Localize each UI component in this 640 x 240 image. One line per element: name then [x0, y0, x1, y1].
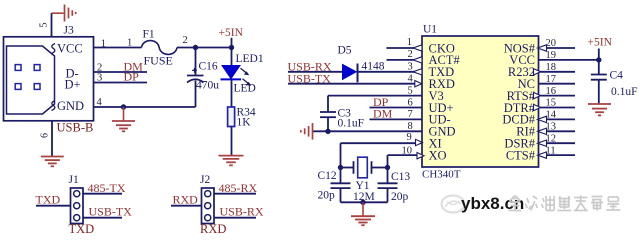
pin 9 in arrow	[416, 139, 423, 145]
svg-text:2: 2	[408, 49, 413, 60]
svg-text:TXD: TXD	[36, 192, 61, 206]
power net +5IN	[598, 49, 600, 60]
wire pin 17	[539, 83, 576, 85]
svg-text:USB-TX: USB-TX	[89, 205, 133, 219]
svg-text:LED1: LED1	[236, 53, 264, 65]
svg-text:C13: C13	[391, 171, 410, 183]
wire	[288, 83, 422, 85]
svg-text:3: 3	[408, 62, 413, 73]
svg-text:D5: D5	[338, 45, 352, 57]
wire (XO)	[388, 154, 423, 156]
chassis ground (J3 shield)	[52, 12, 64, 14]
wire	[370, 107, 423, 109]
svg-text:485-RX: 485-RX	[219, 181, 258, 195]
pin 15 out arrow	[534, 104, 541, 110]
svg-text:J1: J1	[69, 174, 79, 186]
svg-text:RXD: RXD	[200, 222, 226, 233]
wire	[370, 118, 423, 120]
diode D5	[343, 64, 357, 79]
wire	[359, 71, 423, 73]
watermark logo	[442, 196, 465, 213]
svg-text:12: 12	[546, 133, 557, 144]
svg-text:USB-B: USB-B	[57, 121, 94, 135]
svg-text:485-TX: 485-TX	[88, 181, 126, 195]
svg-text:7: 7	[408, 109, 413, 120]
svg-text:+5IN: +5IN	[588, 36, 613, 48]
wire	[171, 205, 202, 207]
capacitor C3	[320, 111, 336, 113]
svg-text:3: 3	[97, 73, 102, 84]
connector J2 body	[202, 188, 215, 224]
watermark chinese text	[509, 196, 522, 211]
svg-text:4148: 4148	[362, 61, 385, 73]
svg-text:F1: F1	[143, 29, 155, 41]
wire (XI)	[341, 142, 423, 144]
junction	[338, 165, 343, 170]
wire (J3 pin2 D-)	[94, 71, 148, 73]
wire	[83, 193, 122, 195]
wire (J3 pin1 VCC)	[94, 47, 142, 49]
pin 10 in arrow	[417, 153, 424, 159]
wire pin 11	[539, 154, 576, 156]
pin 11 in arrow	[538, 152, 547, 158]
svg-text:GND: GND	[57, 99, 84, 113]
connector J3 body (USB-B)	[4, 37, 94, 121]
svg-text:J2: J2	[200, 174, 210, 186]
ground	[588, 103, 611, 105]
fuse F1	[142, 41, 178, 55]
svg-text:5: 5	[39, 23, 50, 28]
svg-text:DP: DP	[124, 70, 140, 84]
wire (J3 pin 6 shield)	[51, 121, 53, 156]
wire pin 16	[539, 95, 576, 97]
wire pin 18	[539, 71, 576, 73]
svg-text:14: 14	[546, 110, 557, 121]
svg-text:18: 18	[546, 62, 557, 73]
svg-text:10: 10	[402, 145, 413, 156]
svg-text:VCC: VCC	[57, 42, 83, 56]
svg-text:0.1uF: 0.1uF	[611, 86, 638, 98]
svg-text:D+: D+	[65, 78, 81, 92]
capacitor C12	[331, 182, 351, 184]
svg-text:USB-RX: USB-RX	[220, 205, 264, 219]
svg-text:C12: C12	[318, 170, 337, 182]
wire (J3 shield pin 5)	[51, 13, 53, 37]
svg-text:J3: J3	[64, 25, 74, 37]
junction	[596, 57, 601, 62]
svg-text:5: 5	[408, 85, 413, 96]
wire pin 14	[539, 118, 576, 120]
wire pin 1	[387, 47, 423, 49]
svg-text:U1: U1	[423, 24, 437, 36]
pin 14 in arrow	[538, 116, 547, 122]
svg-text:1: 1	[101, 39, 106, 50]
wire	[231, 48, 233, 67]
wire pin 13	[539, 130, 576, 132]
svg-text:1: 1	[127, 38, 132, 49]
svg-text:17: 17	[546, 74, 557, 85]
svg-text:2: 2	[183, 35, 188, 46]
wire	[214, 193, 256, 195]
svg-text:+5IN: +5IN	[219, 27, 244, 39]
wire pin 2	[387, 59, 423, 61]
svg-text:6: 6	[408, 97, 413, 108]
wire	[83, 217, 122, 219]
svg-text:20p: 20p	[318, 190, 336, 202]
pin 4 in arrow	[415, 81, 422, 87]
pin 2 out arrow	[413, 57, 422, 63]
wire	[177, 47, 232, 49]
ground (rotated)	[312, 123, 314, 140]
pin 16 out arrow	[534, 92, 541, 98]
svg-text:4: 4	[97, 97, 103, 108]
crystal Y1	[341, 167, 354, 169]
junction	[229, 45, 234, 50]
wire pin 15	[539, 107, 576, 109]
wire pin 19	[539, 59, 599, 61]
pin 13 in arrow	[538, 128, 547, 134]
LED LED1	[222, 66, 240, 79]
pin 18 out arrow	[534, 69, 541, 75]
svg-text:6: 6	[40, 133, 51, 138]
wire	[214, 217, 256, 219]
wire	[36, 205, 71, 207]
svg-text:9: 9	[407, 132, 412, 143]
svg-text:20: 20	[546, 38, 557, 49]
ground (USB-B shield)	[41, 156, 64, 158]
junction	[385, 165, 390, 170]
svg-text:19: 19	[546, 50, 557, 61]
svg-text:CTS#: CTS#	[506, 148, 536, 162]
wire	[231, 127, 233, 156]
svg-text:TXD: TXD	[69, 222, 95, 233]
ground	[219, 155, 244, 157]
wire pin 12	[539, 142, 576, 144]
svg-text:RXD: RXD	[173, 192, 199, 206]
capacitor C16	[195, 48, 197, 76]
capacitor C13	[378, 182, 398, 184]
svg-text:15: 15	[546, 98, 557, 109]
svg-text:470u: 470u	[196, 80, 219, 92]
svg-text:1K: 1K	[237, 117, 252, 129]
wire	[288, 71, 343, 73]
pin 3 out arrow	[413, 69, 422, 75]
IC U1 CH340T body	[422, 36, 539, 167]
pin 12 in arrow	[538, 140, 547, 146]
pin 1 out arrow	[413, 45, 422, 51]
wire pin 20	[539, 47, 576, 49]
junction	[360, 200, 365, 205]
svg-text:16: 16	[546, 86, 557, 97]
wire (J3 pin3 D+)	[94, 82, 148, 84]
capacitor C4	[598, 60, 600, 75]
junction	[325, 129, 330, 134]
wire (J3 pin4 GND)	[94, 106, 196, 108]
svg-text:4: 4	[408, 74, 414, 85]
wire (GND pin8)	[313, 130, 422, 132]
ground	[123, 107, 125, 121]
svg-text:1: 1	[407, 37, 412, 48]
resistor R34	[228, 107, 235, 127]
power net +5IN	[231, 38, 233, 48]
svg-text:LED: LED	[234, 83, 256, 95]
svg-text:C16: C16	[199, 61, 218, 73]
ground	[362, 202, 364, 216]
svg-text:CH340T: CH340T	[422, 169, 461, 181]
svg-text:20p: 20p	[391, 191, 409, 203]
svg-text:2: 2	[97, 62, 102, 73]
wire	[341, 201, 388, 203]
wire (V3)	[328, 95, 422, 97]
svg-text:XO: XO	[429, 148, 447, 162]
junction	[121, 104, 126, 109]
connector J1 body	[71, 188, 84, 224]
svg-text:0.1uF: 0.1uF	[338, 117, 365, 129]
wire	[231, 79, 233, 107]
svg-text:FUSE: FUSE	[144, 54, 173, 68]
svg-text:13: 13	[546, 122, 557, 133]
svg-text:8: 8	[408, 121, 413, 132]
svg-text:C4: C4	[610, 70, 624, 82]
junction	[193, 45, 198, 50]
pin 20 in arrow	[538, 45, 547, 51]
